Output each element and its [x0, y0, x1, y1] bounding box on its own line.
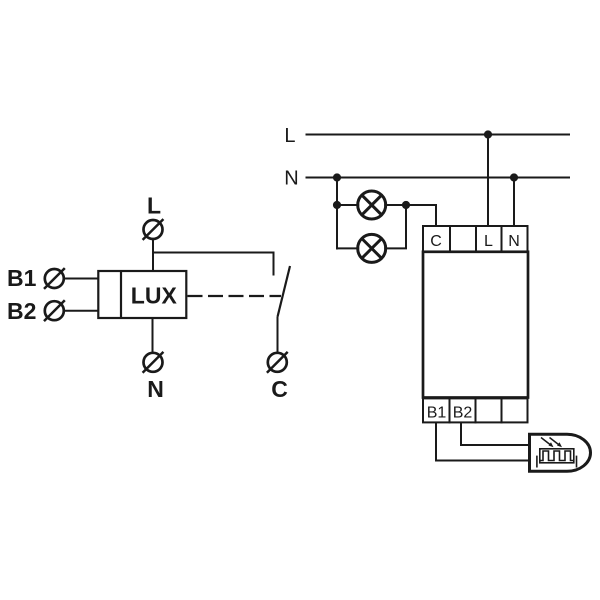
node lamp branch left [333, 201, 341, 209]
svg-text:B1: B1 [427, 405, 447, 422]
svg-text:N: N [508, 233, 520, 250]
terminal N (screw symbol) [143, 352, 164, 373]
module terminal cell (blank) [502, 398, 528, 422]
photo sensor LDR element [537, 449, 577, 468]
svg-text:L: L [147, 193, 161, 219]
svg-text:L: L [484, 233, 493, 250]
svg-text:L: L [284, 125, 295, 147]
wire B1 to LUX box [64, 278, 99, 280]
wire lamp E1 to node [384, 204, 406, 206]
wire N down to lamp branch [336, 178, 338, 250]
module terminal cell (blank) [476, 398, 502, 422]
node on L line [484, 130, 492, 138]
wire left rail to lamp E2 [337, 247, 359, 249]
wire node to module terminal C [406, 205, 436, 227]
wire mains L line [306, 134, 571, 136]
wire B2 to photo sensor [461, 422, 530, 445]
node on N line feeding lamps [333, 173, 341, 181]
module terminal cell C [423, 226, 450, 252]
switch contact blade [278, 266, 290, 317]
photo sensor housing [530, 434, 591, 471]
wire switch to C terminal [277, 317, 279, 354]
svg-text:N: N [147, 376, 164, 402]
dashed control link from LUX box to switch [188, 295, 282, 297]
terminal L (screw symbol) [143, 219, 164, 240]
lamp E2 [358, 234, 386, 262]
module terminal cell B1 [423, 398, 450, 422]
terminal C (screw symbol) [267, 352, 288, 373]
wire L terminal to LUX box top [152, 239, 154, 271]
terminal B1 (screw symbol) [44, 268, 65, 289]
lamp E1 [358, 191, 386, 219]
svg-text:B2: B2 [7, 298, 36, 324]
wire mains N line [306, 177, 571, 179]
photo sensor light arrows [541, 438, 562, 448]
wire B1 to photo sensor [436, 422, 530, 460]
wire lamp E2 to right rail [384, 205, 406, 248]
LUX box inner divider [120, 271, 122, 318]
node lamp branch right [402, 201, 410, 209]
node on N line [510, 173, 518, 181]
wire N line down to module terminal N [513, 178, 515, 228]
module terminal cell N [502, 226, 528, 252]
module terminal cell B2 [450, 398, 476, 422]
svg-text:B2: B2 [453, 405, 473, 422]
svg-text:LUX: LUX [131, 283, 178, 309]
svg-text:N: N [284, 168, 298, 190]
svg-text:B1: B1 [7, 265, 37, 291]
svg-text:C: C [430, 233, 442, 250]
module terminal cell (blank) [450, 226, 476, 252]
LUX sensor box [98, 271, 186, 318]
module body [423, 252, 528, 398]
terminal B2 (screw symbol) [44, 300, 65, 321]
module terminal cell L [476, 226, 502, 252]
wire L line down to module terminal L [487, 135, 489, 228]
wire to lamp E1 [337, 204, 359, 206]
wire LUX box bottom to N terminal [152, 318, 154, 353]
wire branch from L to switch fixed contact [153, 253, 274, 276]
wire B2 to LUX box [64, 310, 99, 312]
svg-text:C: C [271, 376, 288, 402]
